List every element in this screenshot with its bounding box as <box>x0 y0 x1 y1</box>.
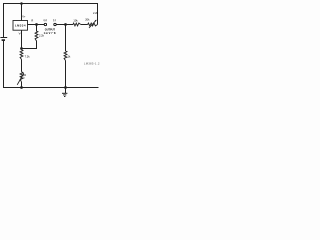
wire: right rail <box>97 3 99 25</box>
svg-text:20k: 20k <box>85 18 90 22</box>
potentiometer R4 20k <box>88 23 98 26</box>
battery B1 positive plate <box>0 37 7 39</box>
ground <box>65 88 67 94</box>
node: bottom left junction dot <box>20 86 23 89</box>
wire: R pin lead <box>28 24 45 26</box>
wire: left rail upper <box>3 3 5 38</box>
svg-text:V+: V+ <box>22 15 26 19</box>
node: V- junction dot <box>20 47 23 50</box>
wire: output to node <box>56 24 73 26</box>
resistor R3 10k <box>73 23 81 26</box>
svg-text:2.2k: 2.2k <box>93 11 99 15</box>
wire: left rail lower <box>3 40 5 88</box>
wire between resistors <box>81 24 88 26</box>
op-amp U1 LM334 box <box>13 21 28 31</box>
resistor R6 7.2k left chain <box>20 50 23 60</box>
svg-text:7.2k: 7.2k <box>25 55 31 59</box>
node: bottom right junction dot <box>64 86 67 89</box>
svg-text:(+): (+) <box>44 20 47 22</box>
wire: V- node to resistor bottom <box>22 48 38 50</box>
node: output junction dot <box>64 23 67 26</box>
wire: bottom rail <box>3 87 99 89</box>
wire: top rail <box>3 3 98 5</box>
svg-text:(-): (-) <box>53 20 56 22</box>
svg-text:OUTPUT: OUTPUT <box>45 27 56 31</box>
svg-text:V-: V- <box>19 31 22 35</box>
wire: V+ lead <box>21 4 23 21</box>
wire: V- lead down to node <box>21 30 23 48</box>
potentiometer R7 trim <box>20 72 23 82</box>
resistor R5 2k branch <box>65 25 67 52</box>
wire left chain mid <box>21 60 23 72</box>
svg-text:10k: 10k <box>73 19 78 23</box>
svg-text:LM334: LM334 <box>15 24 26 28</box>
svg-text:R: R <box>31 19 33 23</box>
node: V+ junction dot <box>20 2 23 5</box>
terminal E2 (-) output <box>54 23 56 25</box>
wire left chain bottom <box>21 82 23 88</box>
battery B1 negative plate <box>2 39 5 41</box>
node: R junction dot <box>35 23 38 26</box>
terminal E1 (+) output <box>44 23 46 25</box>
svg-text:1mV/°K: 1mV/°K <box>44 31 56 35</box>
resistor R2 2.2k body <box>36 25 38 32</box>
svg-text:LM385-1.2: LM385-1.2 <box>84 63 100 66</box>
